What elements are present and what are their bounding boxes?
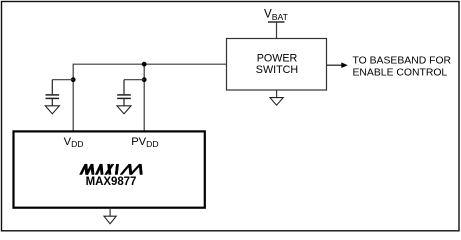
svg-text:TO BASEBAND FOR: TO BASEBAND FOR xyxy=(353,56,452,67)
svg-text:ENABLE CONTROL: ENABLE CONTROL xyxy=(353,68,448,79)
svg-text:VDD: VDD xyxy=(64,136,84,149)
svg-text:MAX9877: MAX9877 xyxy=(86,174,137,188)
svg-text:SWITCH: SWITCH xyxy=(256,64,298,76)
svg-text:PVDD: PVDD xyxy=(131,136,158,149)
svg-text:POWER: POWER xyxy=(257,53,298,65)
